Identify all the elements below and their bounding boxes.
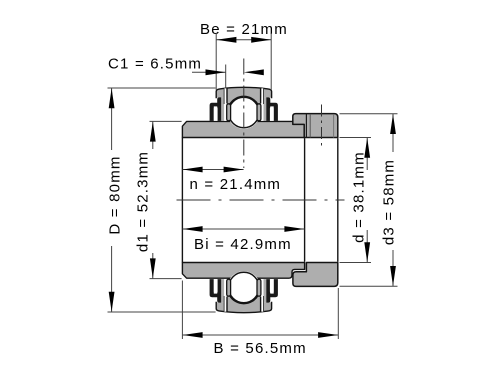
seal left: rubber column	[221, 98, 224, 121]
seal left: metal shield	[210, 103, 220, 121]
bore edge left face (through-bore)	[181, 138, 183, 263]
svg-text:B = 56.5mm: B = 56.5mm	[214, 340, 307, 357]
svg-text:Bi = 42.9mm: Bi = 42.9mm	[194, 236, 292, 253]
dimension d1	[135, 151, 152, 252]
seal right: rubber column	[263, 98, 266, 121]
seal right: metal shield	[268, 103, 278, 121]
svg-text:D = 80mm: D = 80mm	[107, 155, 124, 234]
collar recess edge (top)	[305, 114, 307, 138]
collar right face edge (through-bore)	[337, 138, 339, 262]
eccentric locking collar (bottom section)	[293, 263, 338, 287]
dimension D	[107, 155, 124, 234]
seal left: contact lip capsule	[227, 104, 231, 121]
dimension d3	[381, 159, 398, 245]
outer ring top (spherical OD, fill)	[216, 87, 271, 104]
channel right edge line	[263, 88, 265, 104]
channel left edge line	[223, 88, 225, 104]
svg-text:n = 21.4mm: n = 21.4mm	[190, 176, 282, 193]
inner ring sleeve (top section)	[182, 121, 304, 137]
seal right: white channel	[261, 88, 263, 121]
ball clearance (white)	[227, 96, 260, 129]
collar right tangent edge (top)	[333, 114, 335, 137]
ball (top)	[229, 97, 259, 127]
seal left: arched slot	[214, 107, 218, 121]
svg-text:d = 38.1mm: d = 38.1mm	[351, 151, 368, 243]
outer raceway arc	[230, 96, 259, 104]
seal right: shield anchor blob	[266, 97, 270, 121]
eccentric locking collar (top section)	[293, 114, 338, 138]
seal right: contact lip capsule	[257, 104, 261, 121]
outer ring top outline	[216, 87, 271, 98]
svg-text:d3 = 58mm: d3 = 58mm	[381, 159, 398, 245]
seal left: shield anchor blob	[217, 97, 221, 121]
svg-text:C1 = 6.5mm: C1 = 6.5mm	[108, 56, 202, 73]
seal left: white channel	[224, 88, 226, 121]
seal right: arched slot	[270, 107, 274, 121]
collar center mark (top)	[321, 105, 323, 146]
seal left: groove edge line	[226, 88, 228, 103]
inner ring right face edge (through-bore)	[304, 138, 306, 262]
horizontal centerline	[177, 199, 345, 201]
inner ring sleeve (bottom section, with eccentric step)	[182, 263, 304, 279]
ball axis centerline	[243, 59, 245, 169]
dimension d	[351, 151, 368, 243]
collar recess bore edge (top)	[309, 114, 311, 138]
svg-text:Be = 21mm: Be = 21mm	[200, 21, 288, 38]
seal right: groove edge line	[260, 88, 262, 103]
svg-text:d1 = 52.3mm: d1 = 52.3mm	[135, 151, 152, 252]
mirrored bottom half of bearing	[210, 271, 278, 313]
